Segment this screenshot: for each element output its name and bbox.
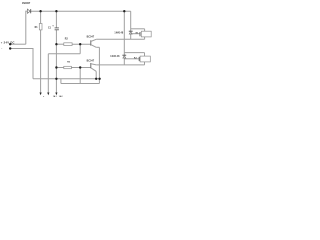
wire ground rail A [33,78,100,80]
svg-text:+ 24V DC: + 24V DC [1,41,15,45]
node + terminal [9,43,11,45]
node R2 right [79,43,81,45]
off-page arrow 3 [55,93,57,96]
node R3 right [79,66,81,68]
svg-text:e: e [43,96,44,98]
wire K2 feed stub [124,52,144,54]
wire riser up to diode [25,11,27,45]
wire + terminal to riser [10,43,26,45]
node - terminal [9,47,11,49]
node Q1 emitter rail [98,78,100,80]
resistor R2 [64,43,72,46]
wire K2 feed column [123,11,125,55]
wire K1 box bottom leg [144,37,146,39]
node junction dots [9,10,126,80]
resistor R3 [64,66,72,68]
svg-text:1N4148: 1N4148 [110,55,120,58]
node rail-C1 [55,10,57,12]
wire Q1 emitter down [96,46,99,48]
capacitor C1 [55,28,59,30]
node rail A x56 [55,78,57,80]
node C1 bottom [55,43,57,45]
wire K1 column from rail [130,11,132,31]
wire - down [32,48,34,79]
transistor Q1 BC547 [91,39,96,47]
wire Q2 emitter down [95,71,97,79]
off-page arrow 1 [40,93,42,96]
relay coil K2 [140,56,150,62]
svg-text:BC547: BC547 [87,35,95,38]
wire K1 box bar link [131,33,140,35]
resistor R1 [39,24,42,30]
wire line y53.8 [48,53,80,55]
wire R1 column [40,11,42,23]
transistor Q2 BC547 [91,63,96,71]
wire x48.7 down [47,54,49,93]
wire K1 feed stub [131,28,145,30]
node Q2 emitter rail [95,78,97,80]
wire node drop x80 [79,44,81,54]
wire K2 box bar link [124,58,139,60]
relay coil K1 [141,31,151,37]
svg-text:BC547: BC547 [87,60,95,63]
wire Q1 collector line [96,38,144,40]
wire node line y44 [56,43,63,45]
wire lower node line y67.5 [56,67,63,69]
wire K2 box bottom leg [144,62,146,65]
node rail-K2 feed [123,10,125,12]
wire lower drop x80 [79,68,81,84]
svg-text:1N4007: 1N4007 [22,2,31,5]
svg-text:1A-2: 1A-2 [59,95,63,98]
diode D3 1N4148 (K2 flyback) [122,55,126,58]
wire - terminal [10,48,33,50]
diode D1 1N4007 [27,9,30,13]
off-page arrow 2 [47,93,49,96]
wire top rail [26,10,28,12]
node lower line left [55,66,57,68]
svg-text:1A-1: 1A-1 [53,95,57,98]
node rail-R1 [39,10,41,12]
svg-text:1N4148: 1N4148 [114,32,124,35]
diode D2 1N4148 (K1 flyback) [129,31,133,34]
wire C1 column [55,11,57,27]
wire line B [61,83,100,85]
wire Q2 collector line [96,64,144,66]
